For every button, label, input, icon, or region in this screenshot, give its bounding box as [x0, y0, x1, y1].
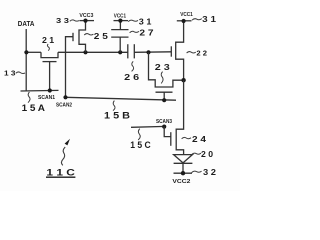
wire SCAN3 line — [131, 125, 166, 128]
svg-text:3 3: 3 3 — [56, 16, 69, 25]
svg-text:SCAN1: SCAN1 — [38, 95, 55, 101]
wire data row horizontal (node to T21) — [26, 51, 41, 53]
wire SCAN1 line — [21, 89, 59, 92]
svg-text:2 6: 2 6 — [124, 72, 139, 82]
leader for 15C — [138, 129, 140, 140]
svg-text:1 5 A: 1 5 A — [22, 103, 46, 113]
leader for 31 left — [128, 20, 138, 22]
power VCC2 terminal — [174, 171, 193, 175]
svg-text:3 1: 3 1 — [139, 16, 152, 26]
leader for 27 — [130, 31, 139, 33]
wire DATA vertical line — [25, 29, 27, 91]
transistor 22 — [171, 21, 183, 80]
transistor 25 — [66, 21, 86, 98]
svg-text:SCAN2: SCAN2 — [56, 102, 72, 108]
svg-text:VCC3: VCC3 — [79, 13, 93, 19]
node junction DATA/T21 — [24, 50, 28, 54]
svg-text:2 4: 2 4 — [192, 134, 206, 144]
figure pointer arrow 11C — [61, 139, 70, 166]
svg-text:VCC1: VCC1 — [180, 12, 193, 18]
svg-text:3 2: 3 2 — [203, 167, 216, 177]
wire C26 to T22 gate — [134, 51, 171, 54]
leader for 26 — [132, 61, 134, 71]
wire SCAN2 line — [66, 97, 177, 100]
capacitor 26 — [128, 44, 135, 58]
wire storage node horizontal (T21 to C26) — [58, 51, 128, 53]
leader for 24 — [182, 137, 191, 138]
leader for 21 — [47, 44, 49, 51]
node junction T23 gate on SCAN2 — [162, 98, 166, 102]
leader for 23 — [161, 72, 163, 84]
svg-text:2 7: 2 7 — [139, 27, 153, 37]
node junction T25 drain — [83, 50, 87, 54]
leader for 15A — [28, 92, 30, 103]
svg-text:2 1: 2 1 — [42, 35, 55, 45]
leader for 33 — [70, 20, 79, 21]
svg-text:1 3: 1 3 — [4, 69, 16, 78]
leader for 25 — [84, 34, 93, 35]
leader squiggles — [16, 19, 202, 173]
node junction T22/T23/T24 drain node — [181, 78, 185, 82]
node junction T21 gate on SCAN1 — [48, 88, 52, 92]
node junction T23 source branch — [146, 50, 150, 54]
LED 20 diode — [174, 155, 193, 174]
transistor 24 — [164, 80, 183, 154]
svg-text:1 5 C: 1 5 C — [130, 140, 151, 150]
svg-text:2 3: 2 3 — [155, 62, 170, 72]
node junction C27 bottom — [118, 50, 122, 54]
svg-text:VCC1: VCC1 — [114, 13, 126, 19]
leader for 32 — [192, 171, 202, 173]
svg-text:SCAN3: SCAN3 — [156, 119, 172, 125]
node junction T25 gate on SCAN2 — [63, 95, 67, 99]
figure label 11C — [46, 167, 75, 178]
transistor 23 — [149, 52, 184, 100]
svg-text:2 0: 2 0 — [201, 149, 213, 159]
svg-text:1 5 B: 1 5 B — [104, 111, 130, 121]
power VCC1 terminal left — [114, 19, 129, 23]
svg-text:2 2: 2 2 — [196, 49, 207, 58]
svg-text:VCC2: VCC2 — [172, 179, 190, 185]
svg-text:DATA: DATA — [18, 21, 35, 28]
svg-text:2 5: 2 5 — [94, 31, 108, 41]
leader for 31 right — [192, 19, 202, 21]
svg-text:1 1 C: 1 1 C — [46, 167, 75, 178]
leader for 22 — [187, 52, 196, 53]
leader for 15B — [113, 101, 115, 111]
power VCC3 terminal — [80, 19, 95, 23]
svg-text:3 1: 3 1 — [202, 14, 216, 24]
node junction T24 gate on SCAN3 — [162, 125, 166, 129]
leader for 13 — [16, 72, 25, 74]
leader for 20 — [192, 153, 201, 155]
transistor 21 — [41, 52, 58, 90]
power VCC1 terminal right — [177, 19, 192, 23]
capacitor 27 — [111, 21, 128, 53]
